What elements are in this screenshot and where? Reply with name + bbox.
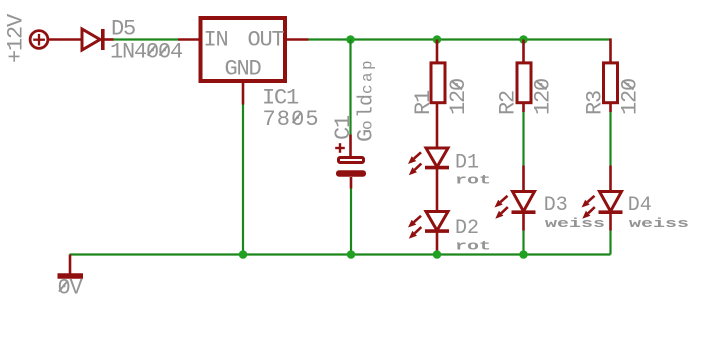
junction top R1 [433,35,442,44]
junction top C1 [346,35,355,44]
svg-text:R1: R1 [411,90,436,115]
label D5 [111,17,135,42]
label IC1 [262,86,299,111]
label D3 [544,194,568,217]
svg-text:D1: D1 [455,152,479,175]
LED D4 [582,166,623,231]
net wire D5 to IC1 [114,38,179,40]
ground 0V [58,255,84,277]
svg-text:1N4004: 1N4004 [110,40,183,65]
resistor R2 [517,40,531,113]
value 7805 [263,107,320,132]
svg-text:120: 120 [531,79,556,115]
svg-text:GND: GND [225,57,262,82]
junction bottom D2 [433,250,442,259]
net wire to C1 [349,40,351,135]
voltage regulator IC1 (7805) [201,18,286,82]
resistor R1 [431,40,445,149]
value 1N4004 [110,40,183,65]
label R2 [496,91,521,115]
LED D2 [408,212,449,239]
value 120 (R2) [531,79,556,115]
value rot (D2) [455,239,491,254]
LED D1 [408,148,449,175]
svg-text:120: 120 [618,79,643,115]
svg-text:D4: D4 [628,194,652,217]
label R1 [411,90,436,115]
svg-text:120: 120 [446,79,471,115]
pin IN stub [178,38,200,41]
svg-text:D2: D2 [455,217,479,240]
svg-text:IN: IN [204,28,228,53]
value Goldcap [354,58,379,142]
net wire R2 to D3 [522,112,524,166]
label D4 [628,194,652,217]
resistor R3 [604,38,618,112]
junction bottom GND [239,250,248,259]
net wire top rail [309,38,611,40]
svg-text:R3: R3 [583,91,608,115]
svg-text:rot: rot [455,239,491,254]
svg-text:7805: 7805 [263,107,320,132]
capacitor C1 [335,135,366,189]
net wire R3 to D4 [609,112,611,166]
label 0V [58,276,84,301]
junction bottom D3 [519,250,528,259]
label D2 [455,217,479,240]
svg-text:+12V: +12V [4,13,29,63]
wire D5 cathode stub [103,38,114,41]
value 120 (R3) [618,79,643,115]
label D1 [455,152,479,175]
svg-text:OUT: OUT [248,28,285,53]
diode D5 [82,29,103,50]
label C1 [331,115,356,140]
svg-text:R2: R2 [496,91,521,115]
net wire GND to bottom rail [242,105,244,255]
net wire C1 to bottom rail [350,189,352,255]
pin OUT stub [285,38,309,41]
supply symbol +12V [30,31,48,49]
value weiss (D3) [545,217,605,232]
value rot (D1) [455,173,491,188]
net wire D3 to bottom rail [522,231,524,255]
svg-text:D3: D3 [544,194,568,217]
value weiss (D4) [629,217,689,232]
wire D1 to D2 [436,168,439,212]
svg-text:rot: rot [455,173,491,188]
junction bottom C1 [347,250,356,259]
svg-text:weiss: weiss [545,217,605,232]
wire D2 to bottom rail [436,231,439,254]
net wire D4 to bottom rail [609,231,611,255]
label R3 [583,91,608,115]
svg-text:weiss: weiss [629,217,689,232]
label +12V [4,13,29,63]
value 120 (R1) [446,79,471,115]
net wire bottom rail [70,253,611,255]
svg-text:C1: C1 [331,115,356,140]
wire +12V to D5 anode [48,38,82,41]
pin GND stub [242,81,245,105]
svg-text:D5: D5 [111,17,135,42]
LED D3 [495,166,536,231]
junction top R2 [519,35,528,44]
